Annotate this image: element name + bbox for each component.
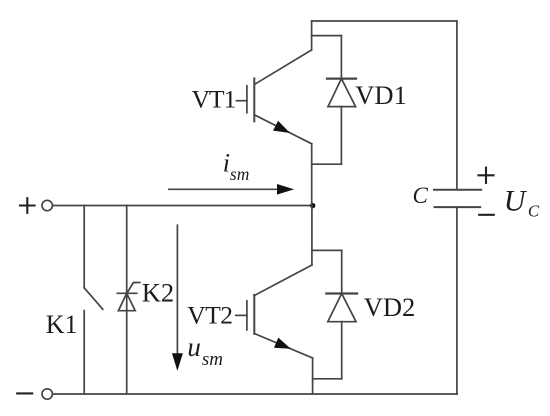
svg-text:ism: ism: [223, 149, 250, 185]
label - (bottom-left terminal): [17, 392, 32, 394]
transistor VT1 (IGBT): [237, 50, 312, 144]
label + (capacitor polarity): [479, 168, 494, 183]
svg-text:VD1: VD1: [355, 80, 407, 110]
wire: VT2 collector riser to junction: [311, 206, 313, 265]
wire: right bus upper segment: [456, 21, 458, 190]
wire: VT2 emitter drop to bottom rail: [312, 358, 314, 394]
wire: mid rail from + terminal to junction: [53, 205, 313, 207]
svg-text:K2: K2: [142, 277, 174, 307]
svg-text:VD2: VD2: [364, 292, 416, 322]
thyristor K2: [117, 206, 140, 395]
wire: VT1 emitter drop to junction: [311, 144, 313, 206]
svg-text:VT2: VT2: [187, 301, 232, 330]
svg-text:C: C: [413, 183, 429, 208]
svg-text:VT1: VT1: [192, 85, 236, 114]
wire: bottom rail: [53, 393, 457, 395]
terminal - (bottom-left) circle: [42, 389, 52, 399]
switch K1: [84, 206, 103, 395]
label - (capacitor polarity): [479, 214, 494, 216]
transistor VT2 (IGBT): [236, 265, 313, 358]
capacitor C: [434, 190, 481, 207]
node: junction dot at midpoint: [310, 203, 315, 208]
wire: right bus lower segment: [456, 207, 458, 394]
terminal + (top-left) circle: [42, 200, 52, 210]
arrow i_sm (current): [169, 185, 293, 194]
svg-text:K1: K1: [46, 310, 78, 339]
diode VD2: [312, 250, 357, 378]
arrow u_sm (voltage): [173, 225, 183, 369]
label + (top-left terminal): [20, 198, 35, 213]
svg-text:usm: usm: [187, 332, 223, 370]
diode VD1: [312, 36, 356, 165]
svg-text:UC: UC: [504, 185, 540, 221]
wire: top rail: [312, 20, 457, 22]
wire: VT1 collector riser to top rail: [311, 21, 313, 50]
